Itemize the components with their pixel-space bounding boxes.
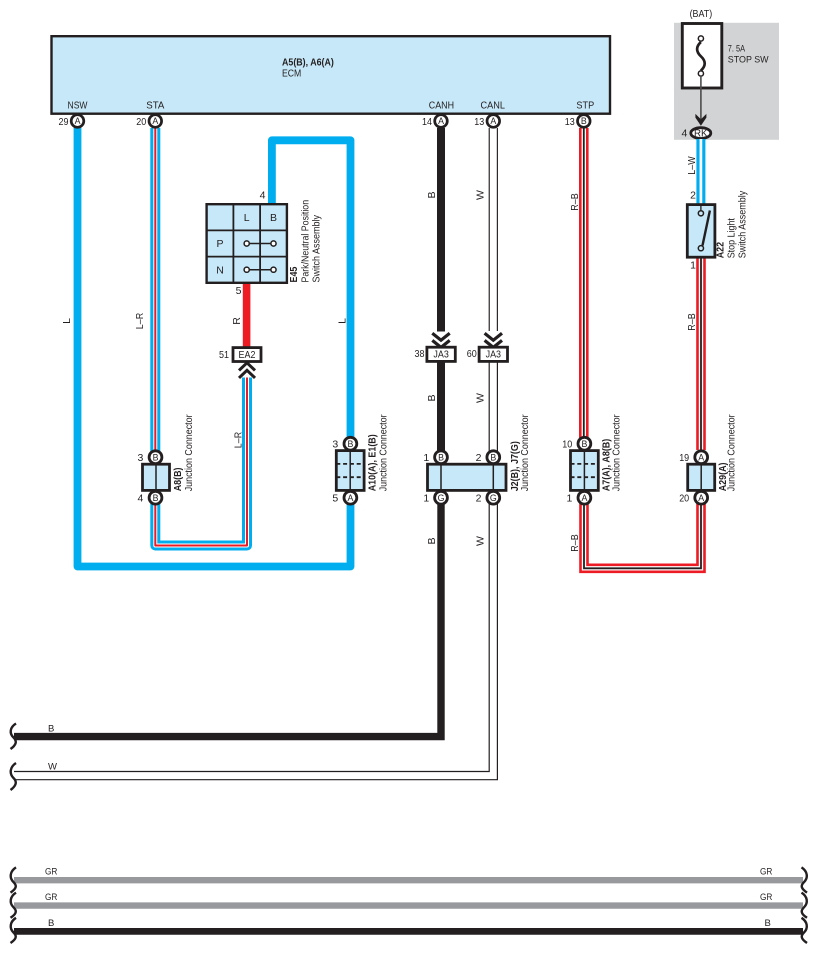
svg-text:W: W bbox=[474, 393, 486, 403]
EA2 up arrow bbox=[239, 363, 255, 378]
svg-text:B: B bbox=[153, 493, 159, 503]
svg-text:60: 60 bbox=[467, 348, 477, 360]
svg-text:2: 2 bbox=[476, 493, 482, 505]
svg-text:W: W bbox=[474, 536, 486, 546]
svg-text:G: G bbox=[490, 493, 497, 503]
svg-text:L: L bbox=[61, 318, 73, 324]
svg-text:1: 1 bbox=[423, 493, 429, 505]
JA3 down arrow (CANL) bbox=[485, 333, 502, 347]
svg-text:W: W bbox=[48, 761, 57, 772]
svg-text:G: G bbox=[438, 493, 445, 503]
svg-text:4: 4 bbox=[681, 127, 687, 139]
svg-text:(BAT): (BAT) bbox=[690, 8, 713, 20]
svg-text:1: 1 bbox=[423, 452, 429, 464]
svg-text:B: B bbox=[438, 453, 444, 463]
squiggle ends B left bbox=[11, 918, 17, 943]
svg-text:NSW: NSW bbox=[68, 99, 88, 111]
svg-text:GR: GR bbox=[45, 867, 58, 878]
switch A22 Stop Light Switch Assembly bbox=[687, 189, 748, 271]
gray relay-block background bbox=[674, 23, 779, 140]
junction connector A7(A), A8(B) bbox=[562, 414, 622, 505]
svg-text:B: B bbox=[48, 723, 54, 734]
connector EA2 (51) bbox=[219, 348, 261, 362]
JA3 down arrow (CANH) bbox=[432, 333, 449, 347]
wire L-W (cyan/white stripe): RK to A22 pin 2 bbox=[696, 139, 705, 205]
squiggle ends B right bbox=[802, 918, 808, 943]
svg-text:20: 20 bbox=[679, 493, 689, 505]
svg-text:4: 4 bbox=[260, 190, 266, 202]
svg-text:4: 4 bbox=[138, 493, 144, 505]
svg-text:29: 29 bbox=[59, 116, 69, 128]
svg-text:3: 3 bbox=[138, 452, 144, 464]
wire R (red): E45 pin 5 to EA2 bbox=[243, 282, 251, 348]
svg-text:Junction Connector: Junction Connector bbox=[519, 414, 531, 491]
svg-text:GR: GR bbox=[45, 892, 58, 903]
squiggle ends GR2 left bbox=[11, 893, 17, 918]
ECM box A5(B), A6(A) bbox=[52, 36, 611, 114]
svg-text:B: B bbox=[347, 439, 353, 449]
svg-text:STA: STA bbox=[146, 99, 164, 111]
svg-text:20: 20 bbox=[136, 116, 146, 128]
wire GR 2 bbox=[14, 902, 803, 908]
svg-text:1: 1 bbox=[566, 493, 572, 505]
squiggle end W wire bbox=[11, 763, 17, 790]
E45 contact row N bbox=[244, 267, 276, 272]
E45 contact row P bbox=[244, 241, 276, 246]
svg-text:L–R: L–R bbox=[134, 312, 146, 329]
svg-text:L–W: L–W bbox=[686, 156, 698, 174]
svg-text:51: 51 bbox=[219, 349, 229, 361]
svg-text:2: 2 bbox=[690, 189, 696, 201]
squiggle ends GR1 left bbox=[11, 867, 17, 892]
svg-text:L: L bbox=[336, 318, 348, 324]
svg-text:R–B: R–B bbox=[569, 193, 581, 210]
svg-text:A: A bbox=[490, 116, 496, 126]
svg-text:E45: E45 bbox=[288, 266, 300, 282]
svg-text:14: 14 bbox=[422, 116, 432, 128]
svg-text:CANL: CANL bbox=[481, 99, 506, 111]
ECM terminal 13 A bbox=[474, 115, 499, 128]
wire B bottom bbox=[14, 928, 803, 935]
connector JA3 (60) bbox=[467, 347, 508, 361]
wire STA L-R (cyan/red stripe): ECM 20A down through A8(B), right, up to EA2 bbox=[155, 128, 247, 546]
svg-text:19: 19 bbox=[679, 452, 689, 464]
svg-text:CANH: CANH bbox=[429, 99, 454, 111]
squiggle ends GR1 right bbox=[802, 867, 808, 892]
svg-text:A: A bbox=[581, 493, 587, 503]
svg-text:B: B bbox=[48, 918, 54, 929]
svg-text:2: 2 bbox=[476, 452, 482, 464]
svg-text:L–R: L–R bbox=[232, 431, 244, 448]
svg-text:ECM: ECM bbox=[282, 67, 301, 79]
svg-text:3: 3 bbox=[332, 439, 338, 451]
svg-text:B: B bbox=[426, 537, 438, 544]
svg-text:B: B bbox=[581, 116, 587, 126]
connector JA3 (38) bbox=[415, 347, 456, 361]
svg-text:B: B bbox=[153, 453, 159, 463]
svg-text:W: W bbox=[474, 190, 486, 200]
svg-text:A: A bbox=[347, 493, 353, 503]
svg-text:L: L bbox=[244, 212, 250, 224]
svg-text:10: 10 bbox=[562, 439, 572, 451]
svg-text:STP: STP bbox=[576, 99, 594, 111]
E45 name label bbox=[288, 200, 323, 283]
svg-text:A: A bbox=[152, 116, 158, 126]
svg-text:A: A bbox=[75, 116, 81, 126]
ECM terminal 14 A bbox=[422, 115, 447, 128]
svg-text:7. 5A: 7. 5A bbox=[728, 43, 746, 54]
squiggle end B wire bbox=[11, 724, 17, 750]
junction connector J2(B), J7(G) bbox=[423, 414, 531, 505]
svg-text:B: B bbox=[270, 212, 277, 224]
svg-text:JA3: JA3 bbox=[486, 349, 502, 361]
svg-text:GR: GR bbox=[760, 892, 773, 903]
junction connector A10(A), E1(B) bbox=[332, 414, 389, 505]
svg-text:Junction Connector: Junction Connector bbox=[726, 414, 738, 491]
svg-text:R–B: R–B bbox=[569, 534, 581, 551]
svg-text:R: R bbox=[231, 317, 243, 325]
svg-text:5: 5 bbox=[236, 285, 242, 297]
svg-text:Junction Connector: Junction Connector bbox=[610, 414, 622, 491]
wire fuse to RK bbox=[700, 76, 702, 119]
svg-text:B: B bbox=[581, 439, 587, 449]
svg-text:B: B bbox=[426, 191, 438, 198]
junction connector A29(A) bbox=[679, 414, 738, 505]
svg-text:STOP SW: STOP SW bbox=[728, 54, 770, 65]
svg-text:A: A bbox=[698, 453, 704, 463]
ECM terminal 20 A bbox=[136, 115, 161, 128]
wire NSW L (cyan): ECM 29A down, right, up to A10 pin 5 bbox=[78, 128, 351, 567]
svg-text:B: B bbox=[490, 453, 496, 463]
svg-text:Junction Connector: Junction Connector bbox=[378, 414, 390, 491]
ECM terminal 13 B bbox=[565, 115, 590, 128]
svg-text:Switch Assembly: Switch Assembly bbox=[737, 190, 749, 258]
svg-text:R–B: R–B bbox=[686, 313, 698, 330]
svg-text:A: A bbox=[698, 493, 704, 503]
svg-text:EA2: EA2 bbox=[239, 349, 256, 361]
wire STP R-B (red/black stripe): ECM 13B down to A7, then right up to A29 bbox=[584, 128, 701, 568]
svg-text:5: 5 bbox=[332, 493, 338, 505]
svg-text:13: 13 bbox=[565, 116, 575, 128]
wire CANL W (white outlined) bbox=[14, 128, 493, 776]
svg-text:A10(A), E1(B): A10(A), E1(B) bbox=[367, 434, 379, 491]
svg-text:RK: RK bbox=[694, 129, 708, 140]
svg-text:A: A bbox=[438, 116, 444, 126]
svg-text:Switch Assembly: Switch Assembly bbox=[311, 214, 323, 282]
svg-text:B: B bbox=[765, 918, 771, 929]
svg-text:N: N bbox=[216, 264, 224, 276]
svg-text:1: 1 bbox=[690, 260, 696, 272]
connector RK oval bbox=[691, 128, 711, 139]
svg-text:13: 13 bbox=[474, 116, 484, 128]
svg-text:B: B bbox=[426, 394, 438, 401]
svg-text:P: P bbox=[216, 238, 223, 250]
ECM terminal 29 A bbox=[59, 115, 84, 128]
squiggle ends GR2 right bbox=[802, 893, 808, 918]
wire GR 1 bbox=[14, 877, 803, 883]
wire L loop: A10 pin 3 up, left, down to E45 pin 4 bbox=[272, 140, 351, 450]
svg-text:JA3: JA3 bbox=[433, 349, 449, 361]
switch E45 Park/Neutral Position Switch Assembly bbox=[207, 204, 287, 283]
wire CANH B (black) bbox=[437, 128, 445, 332]
svg-text:38: 38 bbox=[415, 348, 425, 360]
svg-text:GR: GR bbox=[760, 867, 773, 878]
fuse 7.5A STOP SW box bbox=[682, 24, 722, 89]
junction connector A8(B) bbox=[138, 414, 195, 505]
svg-text:Junction Connector: Junction Connector bbox=[183, 414, 195, 491]
arrowhead into RK bbox=[695, 114, 706, 126]
